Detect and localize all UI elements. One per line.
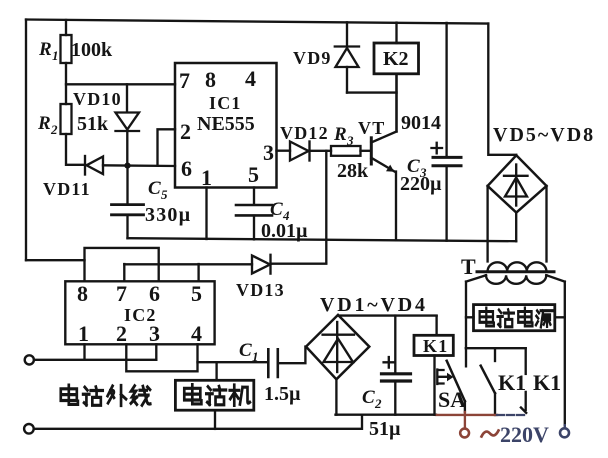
- label R3: [333, 124, 369, 182]
- wire IC2 pins 7-5 loop to VD13: [124, 264, 198, 281]
- terminal phone line lower: [24, 424, 34, 434]
- svg-text:0.01µ: 0.01µ: [261, 220, 308, 242]
- svg-text:1: 1: [78, 321, 89, 346]
- svg-text:C: C: [148, 178, 161, 199]
- terminal 220V right: [560, 425, 569, 437]
- wire 220V feed line: [466, 347, 526, 349]
- svg-text:7: 7: [179, 68, 190, 93]
- terminal 220V left: [460, 412, 469, 437]
- label VD5-VD8: [493, 124, 595, 146]
- label C2: [362, 387, 401, 440]
- svg-text:1.5µ: 1.5µ: [264, 383, 301, 405]
- svg-text:51k: 51k: [77, 113, 109, 135]
- svg-text:K1: K1: [423, 336, 448, 356]
- svg-text:K2: K2: [383, 48, 409, 70]
- svg-text:R: R: [38, 39, 52, 60]
- svg-text:T: T: [461, 254, 476, 279]
- svg-text:VD9: VD9: [293, 48, 332, 68]
- svg-text:VD5~VD8: VD5~VD8: [493, 124, 595, 146]
- label C1: [239, 340, 301, 405]
- svg-text:VD10: VD10: [73, 89, 122, 109]
- svg-text:NE555: NE555: [197, 113, 255, 135]
- svg-text:VD11: VD11: [43, 179, 91, 199]
- wire VD13 horizontal: [271, 263, 326, 265]
- svg-text:VD12: VD12: [280, 123, 329, 143]
- wire IC1 pin1 stem: [205, 188, 207, 240]
- label C3: [400, 156, 442, 195]
- label K2: [383, 48, 409, 70]
- wire transformer primary right lead: [545, 186, 547, 262]
- svg-text:R: R: [37, 113, 51, 134]
- wire IC2 pin3 stem: [155, 344, 157, 360]
- label telephone set (Chinese): [184, 385, 250, 406]
- svg-text:28k: 28k: [337, 160, 369, 182]
- svg-text:IC2: IC2: [124, 305, 157, 325]
- wire transformer primary left lead: [486, 186, 488, 262]
- diode VD12: [290, 142, 331, 161]
- relay contact K1 a: [481, 348, 495, 415]
- box telephone set: [175, 380, 253, 429]
- wire phone line lower: [34, 415, 362, 429]
- resistor R3: [331, 146, 371, 156]
- label telephone power (Chinese): [480, 308, 553, 327]
- bridge rectifier VD5-VD8: [488, 155, 547, 212]
- wire node R1-R2 to IC1 pin7: [66, 83, 175, 85]
- wire IC2 pins 8-6 top loop: [85, 248, 159, 281]
- svg-text:9014: 9014: [401, 112, 441, 134]
- resistor R1: [61, 20, 72, 104]
- svg-text:2: 2: [180, 119, 191, 144]
- diode VD9: [335, 22, 359, 92]
- label phone outer line (Chinese): [61, 385, 150, 405]
- svg-text:7: 7: [116, 281, 127, 306]
- svg-text:C: C: [239, 340, 252, 361]
- svg-text:6: 6: [181, 156, 192, 181]
- label IC1: [197, 93, 255, 135]
- svg-text:220V: 220V: [500, 422, 549, 447]
- relay coil K2 box: [374, 23, 419, 132]
- wire bridge1 bottom stem: [335, 379, 337, 414]
- label VD1-VD4: [320, 294, 428, 316]
- svg-text:1: 1: [52, 48, 59, 63]
- terminal phone line upper: [25, 355, 34, 364]
- label T: [461, 254, 476, 279]
- svg-text:IC1: IC1: [209, 93, 242, 113]
- wire left border: [25, 20, 27, 261]
- label VT: [358, 118, 385, 138]
- svg-text:C: C: [362, 387, 375, 408]
- wire IC2 pins 2-4 bottom loop: [126, 344, 197, 371]
- svg-text:220µ: 220µ: [400, 173, 442, 195]
- svg-text:3: 3: [346, 133, 354, 148]
- svg-text:5: 5: [191, 281, 202, 306]
- diode VD10: [116, 84, 140, 165]
- wire IC1 pin2 jog: [158, 129, 176, 165]
- label SA: [438, 387, 466, 412]
- svg-text:1: 1: [201, 165, 212, 190]
- svg-text:5: 5: [248, 162, 259, 187]
- transformer T primary winding: [488, 262, 547, 270]
- wire left border to IC2 pin8: [26, 259, 85, 261]
- diode VD13: [124, 255, 270, 274]
- wire VD9 to K2 bottom: [347, 91, 397, 93]
- capacitor C3: [432, 23, 462, 241]
- wire top right feed: [488, 24, 516, 155]
- svg-text:100k: 100k: [71, 39, 113, 61]
- relay contact K1 b: [521, 348, 526, 413]
- wire IC1 pin3: [277, 150, 291, 152]
- wire secondary left lead: [466, 275, 486, 366]
- svg-text:4: 4: [245, 66, 256, 91]
- label C5: [145, 178, 191, 226]
- svg-text:VD1~VD4: VD1~VD4: [320, 294, 428, 316]
- wire VD13 riser: [325, 151, 327, 263]
- svg-text:SA: SA: [438, 387, 466, 412]
- labels IC2 pins: [77, 281, 202, 346]
- op-amp U1 IC1 NE555 box: [175, 63, 277, 188]
- IC2 box: [65, 281, 214, 344]
- svg-text:VT: VT: [358, 118, 385, 138]
- capacitor C4: [236, 188, 272, 240]
- svg-text:8: 8: [205, 67, 216, 92]
- wire secondary right lead: [546, 275, 565, 425]
- wire top rail: [26, 20, 488, 24]
- svg-text:2: 2: [374, 396, 382, 411]
- wire bridge1 left jog to C1: [278, 347, 306, 364]
- wire bridge2 bottom to rail: [515, 213, 517, 242]
- transformer T secondary winding: [486, 275, 546, 284]
- wire bottom right rail: [336, 414, 527, 417]
- label VD13: [236, 280, 285, 300]
- bridge rectifier VD1-VD4: [306, 315, 369, 379]
- wire phone line upper: [34, 359, 156, 361]
- svg-text:3: 3: [263, 140, 274, 165]
- capacitor C2: [382, 316, 411, 415]
- label VD12: [280, 123, 329, 143]
- wire junction to phone box: [215, 362, 217, 380]
- svg-text:VD13: VD13: [236, 280, 285, 300]
- relay coil K1 box: [414, 316, 453, 415]
- switch SA arrow: [437, 370, 453, 385]
- svg-text:2: 2: [50, 122, 58, 137]
- wire VT emitter: [371, 158, 396, 240]
- node junction VD10/VD11/C5: [124, 163, 130, 169]
- label VD10: [73, 89, 122, 109]
- transistor Q1 VT base bar: [370, 138, 373, 164]
- label C4: [261, 199, 308, 242]
- wire ground rail: [128, 238, 517, 241]
- labels IC1 pins: [179, 66, 274, 190]
- transformer T core: [477, 270, 554, 273]
- label ~220V: [482, 422, 550, 447]
- svg-text:C: C: [270, 199, 283, 220]
- diode VD11: [85, 156, 175, 175]
- resistor R2: [61, 104, 86, 165]
- svg-text:4: 4: [191, 321, 202, 346]
- svg-text:6: 6: [149, 281, 160, 306]
- svg-text:5: 5: [161, 187, 168, 202]
- label K1 contact a: [498, 370, 526, 395]
- svg-text:1: 1: [252, 349, 259, 364]
- switch SA: [447, 361, 465, 412]
- capacitor C5: [112, 166, 144, 239]
- label K1 coil: [423, 336, 448, 356]
- capacitor C1: [198, 349, 278, 377]
- box telephone power supply: [466, 305, 565, 331]
- label IC2: [124, 305, 157, 325]
- svg-text:R: R: [333, 124, 347, 145]
- label R1: [38, 39, 113, 63]
- wire IC2 pin1 stem: [83, 344, 85, 360]
- label R2: [37, 113, 109, 137]
- wire bridge1 top to K1: [338, 314, 437, 316]
- label VD11: [43, 179, 91, 199]
- svg-text:8: 8: [77, 281, 88, 306]
- svg-text:K1: K1: [498, 370, 526, 395]
- label K1 contact b: [533, 370, 561, 395]
- svg-text:330µ: 330µ: [145, 204, 191, 226]
- label VD9: [293, 48, 332, 68]
- svg-text:51µ: 51µ: [369, 418, 401, 440]
- label 9014: [401, 112, 441, 134]
- svg-text:K1: K1: [533, 370, 561, 395]
- wire VT collector: [371, 74, 396, 143]
